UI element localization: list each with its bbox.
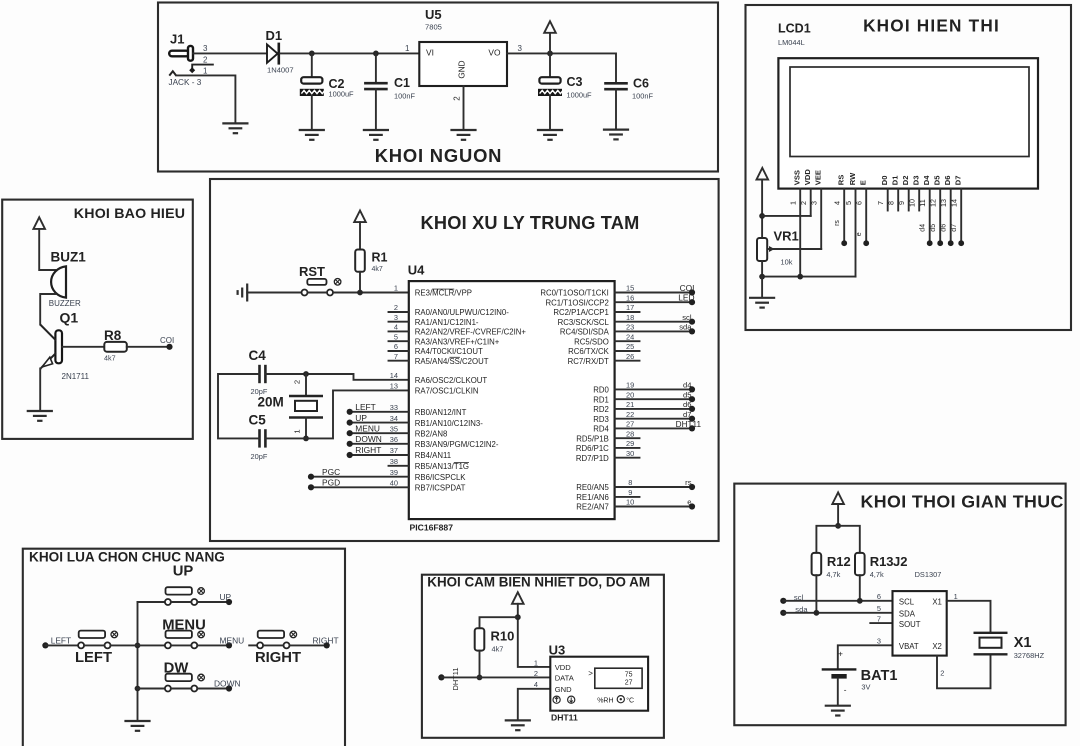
svg-text:RA1/AN1/C12IN1-: RA1/AN1/C12IN1- — [415, 318, 479, 327]
node UP — [226, 599, 232, 605]
svg-text:1: 1 — [534, 658, 538, 667]
wire C1 to ground — [375, 89, 377, 130]
J2 pin 7 — [877, 615, 881, 624]
label RIGHT (net) — [313, 635, 339, 645]
svg-text:C6: C6 — [633, 77, 649, 91]
svg-text:3: 3 — [877, 636, 881, 645]
U3 pin 2 — [534, 669, 538, 678]
junction C1 — [373, 51, 379, 57]
svg-text:4: 4 — [394, 323, 398, 332]
svg-text:E: E — [859, 180, 868, 185]
svg-text:RD7/P1D: RD7/P1D — [576, 454, 609, 463]
ground (U5) — [452, 130, 476, 140]
wire J1 pin3 to D1 anode — [193, 52, 267, 54]
pin number 1 (U5) — [405, 44, 410, 53]
svg-text:21: 21 — [626, 400, 634, 409]
svg-text:1N4007: 1N4007 — [267, 66, 294, 75]
svg-text:LED: LED — [678, 293, 694, 303]
label J1 — [170, 32, 184, 47]
label 4,7k (R13) — [870, 570, 884, 579]
label MENU (big) — [162, 617, 206, 633]
U4 pin 9 — [576, 488, 639, 502]
svg-text:VEE: VEE — [814, 170, 823, 185]
svg-text:C4: C4 — [249, 348, 267, 363]
pin number 3 (U5) — [518, 44, 523, 53]
LCD pin 12 D5 — [929, 175, 944, 246]
svg-text:J1: J1 — [170, 32, 184, 47]
svg-text:RB3/AN9/PGM/C12IN2-: RB3/AN9/PGM/C12IN2- — [415, 440, 499, 449]
wire MENU net to RIGHT button — [249, 644, 257, 646]
svg-text:23: 23 — [626, 323, 634, 332]
LCD pin 11 D4 — [918, 175, 933, 246]
svg-text:D2: D2 — [901, 175, 910, 185]
wire R13 to SCL — [859, 575, 861, 601]
wire button common bus — [137, 602, 139, 721]
wire to C3 — [549, 53, 551, 77]
svg-text:7805: 7805 — [425, 23, 442, 32]
svg-text:38: 38 — [390, 457, 398, 466]
svg-text:2: 2 — [293, 380, 302, 384]
battery BAT1 3V — [822, 650, 857, 695]
svg-text:25: 25 — [626, 342, 634, 351]
svg-text:D4: D4 — [922, 175, 931, 185]
svg-text:e: e — [856, 232, 863, 236]
svg-text:VDD: VDD — [555, 663, 572, 672]
U4 pin 1 — [394, 284, 472, 298]
wire J2 X2 to crystal — [937, 654, 991, 688]
pin number 2 (U5) — [453, 96, 462, 101]
wire R10 to DATA — [479, 651, 481, 678]
svg-text:27: 27 — [626, 420, 634, 429]
svg-text:3V: 3V — [861, 683, 870, 692]
label U5 — [425, 7, 442, 22]
svg-text:VBAT: VBAT — [899, 642, 919, 651]
label C4 — [249, 348, 267, 363]
svg-text:4k7: 4k7 — [372, 266, 383, 273]
svg-text:8: 8 — [628, 478, 632, 487]
svg-text:RA4/T0CKI/C1OUT: RA4/T0CKI/C1OUT — [415, 347, 483, 356]
junction bus/DW — [135, 686, 141, 692]
svg-text:GND: GND — [555, 685, 572, 694]
node MENU — [226, 642, 232, 648]
label PIC16F887 — [410, 523, 454, 533]
wire power to buzzer — [39, 229, 55, 270]
label U4 — [408, 263, 425, 278]
svg-text:RD1: RD1 — [593, 395, 609, 404]
svg-text:PGD: PGD — [322, 478, 340, 488]
U4 pin 13 — [390, 382, 479, 396]
svg-text:32768HZ: 32768HZ — [1014, 651, 1045, 660]
capacitor C6 100nF — [604, 83, 628, 89]
label 1000uF (C3) — [567, 91, 593, 100]
ground (J1) — [223, 123, 247, 133]
svg-text:C1: C1 — [394, 76, 410, 90]
svg-text:RB6/ICSPCLK: RB6/ICSPCLK — [415, 473, 466, 482]
svg-text:D0: D0 — [880, 175, 889, 185]
block frame KHOI NGUON — [158, 3, 718, 172]
wire to crystal — [305, 374, 307, 396]
svg-text:RA2/AN2/VREF-/CVREF/C2IN+: RA2/AN2/VREF-/CVREF/C2IN+ — [415, 328, 527, 337]
potentiometer VR1 10k — [757, 238, 775, 261]
resistor R12 4.7k — [812, 553, 822, 575]
LCD display LCD1 body — [778, 58, 1038, 188]
svg-text:4,7k: 4,7k — [826, 570, 840, 579]
svg-text:RD0: RD0 — [593, 386, 609, 395]
U4 pin 35 — [347, 423, 448, 438]
svg-text:scl: scl — [682, 313, 692, 322]
node COI — [166, 344, 172, 350]
svg-text:30: 30 — [626, 449, 634, 458]
ground (KHOI LUA CHON) — [126, 721, 150, 731]
resistor R10 4k7 — [475, 628, 485, 650]
svg-text:RA0/AN0/ULPWU/C12IN0-: RA0/AN0/ULPWU/C12IN0- — [415, 308, 509, 317]
label 100nF — [394, 92, 415, 101]
label 10k — [781, 258, 793, 267]
block frame KHOI XU LY TRUNG TAM — [210, 179, 719, 541]
svg-text:X2: X2 — [932, 642, 942, 651]
svg-text:3: 3 — [203, 44, 208, 53]
svg-text:5: 5 — [844, 201, 853, 205]
U4 pin 25 — [568, 342, 639, 356]
U4 pin 22 — [593, 410, 695, 424]
svg-text:d6: d6 — [940, 224, 947, 232]
sensor U3 DHT11 — [550, 657, 648, 711]
svg-text:39: 39 — [390, 468, 398, 477]
svg-text:3: 3 — [518, 44, 523, 53]
svg-text:2: 2 — [203, 56, 208, 65]
node DOWN — [226, 685, 232, 691]
ground (KHOI THOI GIAN) — [826, 706, 850, 716]
svg-text:UP: UP — [173, 564, 194, 580]
U4 pin 23 — [560, 323, 695, 337]
svg-text:+: + — [838, 650, 843, 659]
label 4k7 (R8) — [104, 354, 116, 363]
svg-text:5: 5 — [394, 332, 398, 341]
wire across UP — [171, 601, 191, 603]
label D1 — [266, 28, 283, 43]
junction VO rail — [547, 51, 553, 57]
svg-text:KHOI NGUON: KHOI NGUON — [375, 145, 503, 166]
label 2N1711 — [62, 372, 90, 381]
svg-text:14: 14 — [950, 199, 959, 207]
node DHT11 — [438, 674, 444, 680]
svg-text:D6: D6 — [943, 175, 952, 185]
svg-text:RC4/SDI/SDA: RC4/SDI/SDA — [560, 328, 610, 337]
svg-text:22: 22 — [626, 410, 634, 419]
label X1 — [1014, 635, 1032, 651]
transistor Q1 2N1711 — [40, 325, 62, 369]
svg-text:36: 36 — [390, 435, 398, 444]
svg-text:10k: 10k — [781, 258, 793, 267]
U4 pin 7 — [389, 352, 489, 366]
label 1N4007 — [267, 66, 294, 75]
label 4k7 (R1) — [372, 266, 383, 273]
svg-text:RB5/AN13/T1G: RB5/AN13/T1G — [415, 462, 469, 471]
svg-text:D7: D7 — [954, 175, 963, 185]
label R8 — [104, 328, 122, 343]
svg-text:PGC: PGC — [322, 467, 340, 477]
pin number 1 (J1) — [203, 67, 208, 76]
label LEFT (big) — [75, 650, 112, 666]
svg-text:R1: R1 — [372, 251, 388, 265]
U4 pin 2 — [389, 303, 510, 317]
wire top rail to resistors — [816, 526, 859, 553]
svg-text:1: 1 — [293, 429, 302, 433]
svg-text:d7: d7 — [951, 224, 958, 232]
svg-text:6: 6 — [877, 592, 881, 601]
pin number 3 (J1) — [203, 44, 208, 53]
svg-text:RB0/AN12/INT: RB0/AN12/INT — [415, 408, 467, 417]
wire crystal bottom — [305, 418, 307, 439]
label BAT1 — [861, 668, 898, 684]
block frame KHOI CAM BIEN — [422, 575, 664, 738]
svg-text:2N1711: 2N1711 — [62, 372, 90, 381]
wire across RIGHT — [263, 644, 283, 646]
svg-text:RS: RS — [837, 175, 846, 186]
svg-text:COI: COI — [160, 336, 174, 345]
wire buzzer to Q1 collector — [40, 294, 55, 325]
svg-text:KHOI BAO HIEU: KHOI BAO HIEU — [74, 206, 185, 222]
svg-text:DHT11: DHT11 — [451, 668, 460, 691]
U4 pin 5 — [389, 332, 500, 346]
svg-text:7: 7 — [394, 352, 398, 361]
svg-text:34: 34 — [390, 414, 398, 423]
svg-text:>: > — [588, 669, 593, 678]
wire Q1 emitter to ground — [39, 368, 41, 411]
wire to C2 — [311, 53, 313, 77]
wire across MENU — [171, 644, 191, 646]
svg-text:2: 2 — [799, 201, 808, 205]
node RIGHT — [324, 642, 330, 648]
label LM044L — [778, 38, 805, 47]
block frame KHOI HIEN THI — [746, 5, 1072, 330]
U4 pin 21 — [593, 400, 695, 414]
power +5V (KHOI HIEN THI) — [757, 168, 769, 180]
svg-text:3: 3 — [394, 313, 398, 322]
svg-text:4,7k: 4,7k — [870, 570, 884, 579]
svg-text:27: 27 — [625, 680, 633, 687]
label LCD1 — [778, 22, 811, 36]
U4 pin 40 — [308, 478, 466, 493]
block frame KHOI THOI GIAN THUC — [734, 484, 1065, 726]
push button UP — [165, 587, 205, 605]
label scl — [794, 593, 804, 602]
svg-text:1: 1 — [789, 201, 798, 205]
wire to OSC1 pin13 — [306, 390, 409, 438]
svg-text:Q1: Q1 — [60, 310, 79, 326]
label sda — [795, 605, 808, 614]
svg-text:D3: D3 — [912, 175, 921, 185]
label C6 — [633, 77, 649, 91]
svg-text:RA5/AN4/SS/C2OUT: RA5/AN4/SS/C2OUT — [415, 357, 489, 366]
U4 pin 28 — [576, 429, 639, 443]
svg-text:VDD: VDD — [803, 169, 812, 186]
svg-text:D1: D1 — [891, 175, 900, 185]
svg-text:RA6/OSC2/CLKOUT: RA6/OSC2/CLKOUT — [415, 376, 488, 385]
svg-text:DOWN: DOWN — [355, 434, 382, 444]
label 4k7 (R10) — [492, 645, 504, 654]
junction R12/R13 top — [835, 523, 841, 529]
svg-text:U4: U4 — [408, 263, 425, 278]
LCD pin 3 VEE — [810, 170, 823, 249]
wire J2 VBAT to battery — [838, 645, 893, 669]
U4 pin 19 — [593, 381, 695, 395]
U4 pin 6 — [389, 342, 484, 356]
svg-text:sda: sda — [679, 323, 692, 332]
U4 pin 39 — [308, 467, 466, 482]
ground (C3) — [538, 130, 562, 140]
wire to C1 — [375, 53, 377, 83]
label BUZ1 — [51, 250, 87, 265]
svg-text:4: 4 — [833, 201, 842, 205]
svg-text:C5: C5 — [249, 413, 267, 428]
crystal X1 32768Hz — [974, 633, 1008, 655]
svg-text:RC5/SDO: RC5/SDO — [574, 337, 609, 346]
block frame KHOI LUA CHON CHUC NANG — [23, 549, 345, 746]
svg-text:U3: U3 — [549, 642, 566, 657]
LCD pin 4 RS — [833, 175, 848, 246]
wire U3 GND to ground — [518, 689, 551, 720]
U4 pin 15 — [540, 283, 695, 298]
wire UP to node — [197, 601, 229, 603]
svg-text:-: - — [844, 686, 847, 695]
svg-text:rs: rs — [685, 478, 692, 487]
push button LEFT — [78, 631, 118, 649]
svg-text:RB1/AN10/C12IN3-: RB1/AN10/C12IN3- — [415, 419, 483, 428]
label UP (big) — [173, 564, 194, 580]
U4 pin 10 — [576, 498, 695, 512]
U4 pin 18 — [558, 313, 695, 327]
svg-text:7: 7 — [876, 201, 885, 205]
wire RST to U4 pin1 — [333, 292, 409, 294]
LCD pin 8 D1 — [887, 175, 900, 211]
crystal pin 2 — [293, 380, 302, 384]
svg-text:8: 8 — [887, 201, 896, 205]
title KHOI THOI GIAN THUC — [861, 492, 1064, 512]
power +5V (KHOI XU LY) — [354, 211, 366, 223]
title KHOI XU LY TRUNG TAM — [421, 213, 640, 233]
U3 pin 4 — [534, 680, 538, 689]
title KHOI LUA CHON CHUC NANG — [29, 550, 225, 565]
U4 pin 4 — [389, 323, 527, 337]
wire bus to DW button — [138, 688, 165, 690]
junction VR1 bottom — [759, 274, 765, 280]
junction R10/DATA — [477, 675, 483, 681]
svg-text:SOUT: SOUT — [899, 620, 921, 629]
U4 pin 36 — [347, 434, 499, 449]
capacitor C4 20pF — [260, 365, 266, 383]
U4 pin 30 — [576, 449, 640, 463]
wire DW to node — [197, 688, 229, 690]
label DW (big) — [164, 661, 189, 677]
wire VR1 bottom rail — [762, 261, 855, 277]
ground (KHOI HIEN THI) — [750, 298, 774, 308]
svg-text:RA3/AN3/VREF+/C1IN+: RA3/AN3/VREF+/C1IN+ — [415, 337, 500, 346]
label Q1 — [60, 310, 79, 326]
label C1 — [394, 76, 410, 90]
svg-text:RB4/AN11: RB4/AN11 — [415, 451, 451, 460]
svg-text:4k7: 4k7 — [492, 645, 504, 654]
svg-text:DOWN: DOWN — [214, 678, 241, 688]
svg-text:RB7/ICSPDAT: RB7/ICSPDAT — [415, 484, 466, 493]
power +5V (KHOI CAM BIEN) — [512, 592, 524, 604]
svg-text:UP: UP — [355, 413, 367, 423]
label R1 — [372, 251, 388, 265]
wire power stem — [837, 504, 839, 526]
svg-text:40: 40 — [390, 479, 398, 488]
wire DHT11 node to U3 DATA — [441, 676, 550, 678]
RTC J2 DS1307 — [893, 591, 947, 656]
svg-text:1000uF: 1000uF — [567, 91, 593, 100]
svg-text:1: 1 — [954, 592, 958, 601]
svg-text:3: 3 — [810, 201, 819, 205]
svg-text:2: 2 — [453, 96, 462, 101]
svg-text:KHOI XU LY TRUNG TAM: KHOI XU LY TRUNG TAM — [421, 213, 640, 233]
crystal 20M — [289, 396, 323, 418]
U4 pin 24 — [574, 332, 639, 346]
label UP (net) — [220, 592, 232, 602]
push button DW — [165, 674, 205, 692]
svg-text:X1: X1 — [932, 597, 942, 606]
ground (C2) — [300, 130, 324, 140]
ground (C6) — [604, 130, 628, 140]
wire D1 cathode to U5 VI — [280, 52, 419, 54]
svg-text:KHOI THOI GIAN THUC: KHOI THOI GIAN THUC — [861, 492, 1064, 512]
regulator U5 7805 — [419, 42, 507, 86]
push button MENU — [165, 631, 205, 649]
svg-text:12: 12 — [929, 199, 938, 207]
svg-text:d5: d5 — [930, 224, 937, 232]
label 20pF (C4) — [251, 387, 268, 396]
wire ground to RST — [247, 292, 301, 294]
label LEFT (net) — [51, 635, 71, 645]
U4 pin 8 — [576, 478, 695, 492]
svg-text:RC7/RX/DT: RC7/RX/DT — [568, 357, 609, 366]
svg-text:d5: d5 — [683, 390, 691, 399]
svg-text:13: 13 — [939, 199, 948, 207]
svg-text:e: e — [687, 498, 691, 507]
junction C2 — [309, 51, 315, 57]
U4 pin 16 — [546, 293, 696, 308]
wire R12 to SDA — [815, 575, 817, 613]
label DS1307 — [915, 570, 942, 579]
svg-text:DATA: DATA — [555, 673, 575, 682]
U4 pin 34 — [347, 413, 484, 428]
svg-text:R13: R13 — [870, 554, 894, 569]
power +5V (KHOI THOI GIAN) — [832, 492, 844, 504]
svg-text:BUZZER: BUZZER — [49, 299, 81, 308]
svg-text:RC1/T1OSI/CCP2: RC1/T1OSI/CCP2 — [546, 298, 609, 307]
svg-text:2: 2 — [534, 669, 538, 678]
U4 pin 17 — [553, 303, 639, 317]
J2 pin 2 — [940, 669, 944, 678]
wire C4/C5 left loop — [218, 374, 260, 438]
label COI — [160, 336, 174, 345]
wire C6 to ground — [615, 89, 617, 129]
svg-text:1: 1 — [405, 44, 410, 53]
svg-text:4: 4 — [534, 680, 538, 689]
svg-text:RE3/MCLR/VPP: RE3/MCLR/VPP — [415, 289, 472, 298]
label 100nF (C6) — [632, 92, 653, 101]
svg-text:RIGHT: RIGHT — [313, 635, 339, 645]
svg-text:COI: COI — [680, 283, 695, 293]
U4 pin 20 — [593, 390, 695, 404]
wire power to R1 — [359, 222, 361, 249]
U4 pin 3 — [389, 313, 479, 327]
wire RIGHT to node — [290, 644, 327, 646]
ground (KHOI BAO HIEU) — [28, 411, 52, 421]
junction VSS — [797, 274, 803, 280]
